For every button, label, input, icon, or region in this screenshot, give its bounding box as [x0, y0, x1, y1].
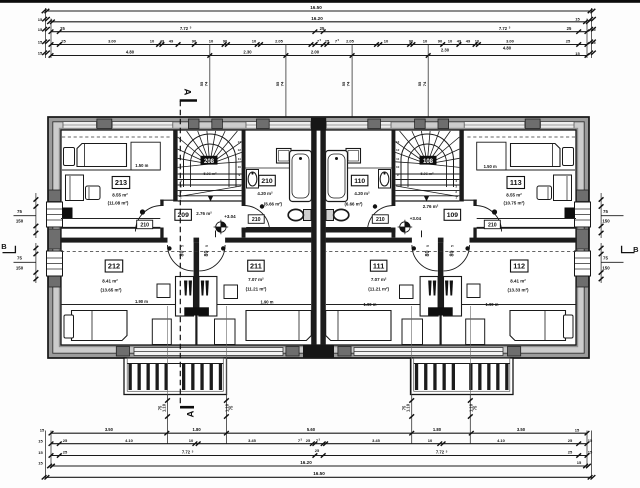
- svg-text:+3.04: +3.04: [224, 214, 236, 219]
- top scan border bar: [0, 0, 640, 3]
- svg-text:74: 74: [346, 81, 351, 86]
- room 111 label: [370, 260, 387, 271]
- svg-text:1.10: 1.10: [406, 403, 411, 412]
- svg-text:1.10: 1.10: [468, 403, 473, 412]
- unit L: radiator top bedroom: [62, 208, 73, 219]
- svg-text:11: 11: [396, 157, 400, 161]
- svg-text:112: 112: [513, 262, 525, 271]
- svg-text:80: 80: [449, 251, 455, 257]
- unit R: level symbol +3.04: [398, 220, 413, 235]
- svg-text:5: 5: [181, 245, 185, 247]
- svg-text:210: 210: [261, 178, 273, 185]
- dim row 16.50 bottom: [46, 476, 592, 478]
- unit L: bathtub: [290, 151, 312, 202]
- svg-text:25: 25: [567, 26, 572, 31]
- svg-text:90: 90: [223, 39, 228, 44]
- unit R: door arc to bathroom: [367, 206, 393, 232]
- svg-text:110: 110: [354, 178, 365, 185]
- unit R: balcony railing balusters: [505, 364, 508, 391]
- svg-text:5.06 m²: 5.06 m²: [420, 172, 434, 176]
- side exterior windows: [47, 202, 591, 276]
- svg-text:74: 74: [280, 81, 285, 86]
- svg-text:10: 10: [423, 39, 428, 44]
- svg-text:49: 49: [169, 39, 174, 44]
- svg-text:3.50: 3.50: [517, 427, 526, 432]
- unit R: door arc to top bedroom: [475, 206, 501, 232]
- unit R: door arc to lower-left room: [444, 245, 470, 271]
- svg-text:2.00: 2.00: [311, 50, 320, 55]
- unit R: dark cabinet block at divider foot: [428, 307, 453, 315]
- svg-text:8.41 m²: 8.41 m²: [510, 278, 526, 283]
- room 109 label: [444, 209, 461, 220]
- unit L: door arc to top bedroom: [136, 206, 162, 232]
- svg-text:7.72: 7.72: [436, 450, 445, 455]
- svg-text:7.07 m²: 7.07 m²: [371, 277, 387, 282]
- unit R: landing-stair junction line: [459, 199, 476, 201]
- right wall window dims 75/150: [599, 193, 624, 283]
- svg-text:25: 25: [306, 438, 311, 443]
- unit R: stair inner horseshoe: [408, 144, 447, 187]
- svg-text:A: A: [186, 411, 197, 418]
- svg-text:90: 90: [438, 39, 443, 44]
- svg-text:(11.08 m²): (11.08 m²): [108, 201, 129, 206]
- unit L: balcony railing balusters: [129, 364, 132, 391]
- exterior wall insulation band: [53, 122, 584, 353]
- room 110 label: [351, 175, 368, 186]
- svg-text:10: 10: [448, 39, 453, 44]
- svg-text:4.20 m²: 4.20 m²: [354, 191, 370, 196]
- dim row 3.50/1.80/5.60 bottom: [51, 432, 587, 434]
- room labels and texts: [100, 159, 529, 307]
- svg-text:5: 5: [205, 245, 209, 247]
- svg-text:49: 49: [160, 39, 165, 44]
- svg-text:80: 80: [425, 251, 431, 257]
- unit R: chair lower-left room: [450, 281, 453, 296]
- svg-text:3.45: 3.45: [372, 438, 381, 443]
- svg-text:5: 5: [450, 245, 454, 247]
- top dimension block: [38, 5, 597, 58]
- svg-text:208: 208: [204, 159, 215, 165]
- unit L: toilet: [304, 210, 312, 221]
- dim row small dims top: [51, 44, 587, 46]
- unit L: desk lower-left room: [176, 277, 194, 317]
- svg-text:109: 109: [447, 212, 459, 219]
- svg-text:3.45: 3.45: [248, 438, 257, 443]
- svg-text:90: 90: [192, 39, 197, 44]
- svg-text:25: 25: [63, 438, 68, 443]
- unit R: side table lower-left: [467, 284, 480, 298]
- svg-text:74: 74: [203, 81, 208, 86]
- unit R: washbasin: [379, 170, 391, 189]
- svg-text:210: 210: [488, 222, 497, 228]
- unit L: stair treads straight flight: [178, 173, 242, 175]
- svg-text:25: 25: [63, 450, 68, 455]
- svg-text:15: 15: [38, 461, 43, 466]
- unit R: balcony slab: [411, 358, 514, 395]
- unit R: dresser lower-left: [466, 319, 485, 345]
- unit R: ceiling height dashed line top room: [465, 136, 575, 138]
- svg-text:13: 13: [396, 140, 400, 144]
- unit L: wardrobe top room: [131, 142, 160, 170]
- svg-text:15: 15: [38, 450, 43, 455]
- unit R: chair lower-right room: [433, 281, 436, 296]
- svg-text:2.76 m²: 2.76 m²: [196, 211, 212, 216]
- unit R: bedroom south wall thin line: [477, 227, 576, 229]
- svg-text:80: 80: [204, 251, 210, 257]
- unit R: desk lower-right room: [420, 277, 438, 317]
- svg-text:25: 25: [320, 26, 325, 31]
- dim end connector lines top: [45, 8, 47, 58]
- svg-text:15: 15: [38, 438, 43, 443]
- svg-text:2.76 m²: 2.76 m²: [423, 204, 439, 209]
- unit L: balcony slab: [124, 358, 227, 395]
- svg-text:8.55 m²: 8.55 m²: [112, 192, 128, 197]
- unit L: level symbol stem tick: [215, 231, 217, 238]
- unit R: washing machine: [346, 149, 361, 164]
- unit L: dresser lower-left: [152, 319, 171, 345]
- unit L: stair outer horseshoe: [184, 134, 237, 187]
- svg-text:7.07 m²: 7.07 m²: [248, 277, 264, 282]
- unit L: corridor south wall: [61, 238, 311, 243]
- unit L: desk lower-right room: [199, 277, 217, 317]
- svg-text:8.55 m²: 8.55 m²: [506, 192, 522, 197]
- svg-text:3.50: 3.50: [105, 427, 114, 432]
- svg-text:10: 10: [189, 438, 194, 443]
- svg-text:75: 75: [603, 256, 608, 261]
- unit R: dresser lower-right: [402, 319, 423, 345]
- room 210 label: [259, 175, 276, 186]
- svg-text:10: 10: [396, 165, 400, 169]
- svg-text:113: 113: [510, 178, 522, 187]
- balcony door dims 75/1.10: [157, 306, 477, 444]
- svg-text:10: 10: [209, 39, 214, 44]
- unit R: bedside table top bedroom: [563, 148, 574, 166]
- svg-text:25: 25: [61, 39, 66, 44]
- unit R: stair outer horseshoe: [401, 134, 454, 187]
- room 212 label: [105, 260, 123, 272]
- unit L: stair walk-line arrow: [208, 196, 213, 202]
- unit R: divider wall lower thin part: [440, 316, 442, 346]
- unit R: bed lower-right room: [326, 311, 391, 341]
- svg-text:(10.75 m²): (10.75 m²): [503, 201, 525, 206]
- svg-text:16.20: 16.20: [300, 460, 312, 465]
- unit R: stair walk-line arrow: [424, 196, 429, 202]
- svg-text:10: 10: [238, 165, 242, 169]
- unit R: stair treads straight flight: [395, 173, 459, 175]
- unit R: 1.50m line top room: [477, 169, 575, 171]
- svg-text:1.10: 1.10: [224, 403, 229, 412]
- svg-text:5: 5: [426, 245, 430, 247]
- unit R: divider wall between lower rooms: [438, 243, 444, 308]
- unit R: chair top bedroom: [537, 186, 552, 200]
- svg-text:150: 150: [602, 265, 610, 270]
- unit L: washing machine: [277, 149, 292, 164]
- svg-text:7.72: 7.72: [180, 26, 189, 31]
- unit L: bathroom south wall: [242, 227, 312, 233]
- dim row 7.72 bottom: [51, 455, 587, 457]
- svg-text:15: 15: [575, 428, 580, 433]
- svg-text:49: 49: [466, 39, 471, 44]
- unit L: landing west wall: [160, 200, 163, 241]
- unit R: bed top bedroom: [511, 144, 561, 167]
- svg-text:90: 90: [409, 39, 414, 44]
- party wall (double acoustic wall): [303, 118, 334, 358]
- svg-text:15: 15: [575, 51, 580, 56]
- svg-text:15: 15: [588, 450, 593, 455]
- svg-text:10: 10: [428, 438, 433, 443]
- room 113 label: [507, 177, 525, 189]
- svg-text:111: 111: [373, 261, 384, 270]
- svg-text:(6.66 m²): (6.66 m²): [344, 202, 363, 207]
- unit L: bedroom south wall thin line: [61, 227, 160, 229]
- unit R: toilet: [326, 210, 334, 221]
- unit L: level symbol +3.04: [214, 220, 229, 235]
- unit L: 1.50m line bathroom: [246, 167, 312, 169]
- svg-text:16.50: 16.50: [310, 5, 322, 10]
- svg-text:213: 213: [115, 178, 127, 187]
- svg-text:8.41 m²: 8.41 m²: [102, 278, 118, 283]
- svg-text:(13.65 m²): (13.65 m²): [100, 288, 122, 293]
- svg-text:11: 11: [238, 157, 242, 161]
- top wall glazing strips: [63, 122, 574, 129]
- door tags left unit: [137, 220, 153, 229]
- unit R: lower height line top room: [477, 218, 576, 220]
- unit L: desk top bedroom: [66, 175, 84, 201]
- unit L: side table lower-left: [157, 284, 170, 298]
- unit L: chair top bedroom: [86, 186, 101, 200]
- svg-text:25: 25: [568, 450, 573, 455]
- svg-text:2.05: 2.05: [275, 39, 284, 44]
- svg-text:12: 12: [396, 148, 400, 152]
- svg-text:15: 15: [588, 438, 593, 443]
- svg-text:2.30: 2.30: [441, 48, 450, 53]
- svg-text:4.10: 4.10: [125, 438, 134, 443]
- section mark A bottom: [180, 406, 194, 409]
- svg-text:1.50 m: 1.50 m: [484, 164, 497, 169]
- svg-text:4.80: 4.80: [126, 50, 135, 55]
- unit R: stair/bath wall: [392, 130, 396, 238]
- section line A-A dashed: [179, 101, 181, 406]
- svg-text:10: 10: [384, 39, 389, 44]
- svg-text:5.06 m²: 5.06 m²: [203, 172, 217, 176]
- unit L: dark cabinet block at divider foot: [184, 307, 209, 315]
- svg-text:3.00: 3.00: [108, 39, 117, 44]
- unit L: bed lower-right room: [246, 311, 311, 341]
- svg-text:210: 210: [140, 222, 149, 228]
- section mark A top: [180, 99, 197, 102]
- svg-text:15: 15: [40, 428, 45, 433]
- svg-text:25: 25: [60, 26, 65, 31]
- unit R: radiator top bedroom: [565, 208, 576, 219]
- unit L: side table lower-right: [224, 285, 238, 299]
- unit R: wardrobe top room: [477, 142, 506, 170]
- svg-text:1.90 m: 1.90 m: [135, 299, 148, 304]
- svg-text:75: 75: [603, 209, 608, 214]
- svg-text:150: 150: [16, 265, 24, 270]
- unit L: divider wall lower thin part: [195, 316, 197, 346]
- svg-text:150: 150: [16, 219, 24, 224]
- unit L: stair break line: [179, 186, 241, 197]
- unit L: chair lower-left room: [184, 281, 187, 296]
- svg-text:15: 15: [577, 460, 582, 465]
- bottom wall window strips: [134, 348, 503, 356]
- svg-text:150: 150: [602, 219, 610, 224]
- svg-text:1.50 m: 1.50 m: [135, 163, 148, 168]
- unit R: stair number box: [420, 156, 437, 165]
- wall pier blocks: [49, 119, 589, 356]
- svg-text:+3.04: +3.04: [410, 216, 422, 221]
- svg-text:74: 74: [422, 81, 427, 86]
- room 213 label: [112, 177, 130, 189]
- dim end connector lines bottom: [45, 431, 47, 479]
- svg-text:4.20 m²: 4.20 m²: [257, 191, 273, 196]
- svg-text:7.72: 7.72: [182, 450, 191, 455]
- unit L: stair inner horseshoe: [191, 144, 230, 187]
- unit R: level symbol stem tick: [421, 231, 423, 238]
- svg-text:10: 10: [252, 39, 257, 44]
- svg-text:212: 212: [108, 262, 120, 271]
- exterior wall outer band: [48, 117, 589, 358]
- svg-text:1.90 m: 1.90 m: [485, 302, 498, 307]
- dim row 16.20 bottom: [51, 465, 587, 467]
- bottom dimension block: [38, 427, 595, 479]
- svg-text:13: 13: [238, 140, 242, 144]
- svg-text:(6.66 m²): (6.66 m²): [264, 202, 283, 207]
- dim row 16.20 top: [51, 21, 587, 23]
- svg-text:25: 25: [325, 39, 330, 44]
- unit R: desk lower-left room: [444, 277, 462, 317]
- svg-text:210: 210: [252, 217, 261, 223]
- unit L: lower height line top room: [61, 218, 160, 220]
- left wall window dims 75/150: [14, 193, 39, 283]
- unit L: ceiling height dashed line top room: [62, 136, 172, 138]
- unit L: washbasin: [247, 170, 259, 189]
- exterior wall inner leaf: [59, 128, 578, 347]
- svg-text:16.20: 16.20: [311, 16, 323, 21]
- svg-text:B: B: [1, 242, 7, 251]
- unit R: dashed height line lower rooms: [326, 251, 576, 253]
- unit R: stair enclosure west wall: [459, 130, 463, 202]
- svg-text:1.80: 1.80: [433, 427, 442, 432]
- svg-text:25: 25: [566, 39, 571, 44]
- dim row 4.80 top: [51, 55, 587, 57]
- unit L: stair enclosure west wall: [173, 130, 177, 202]
- unit R: side table lower-right: [400, 285, 414, 299]
- unit L: chair lower-right room: [201, 281, 204, 296]
- room 112 label: [511, 260, 529, 272]
- svg-text:1.80: 1.80: [193, 427, 202, 432]
- svg-text:25: 25: [568, 438, 573, 443]
- unit L: 1.50m line top room: [62, 169, 160, 171]
- interior floor area: [61, 130, 576, 345]
- unit R: corridor south wall: [326, 238, 576, 243]
- unit L: 1.90m lines lower rooms: [61, 304, 194, 306]
- svg-text:10: 10: [150, 39, 155, 44]
- unit L: stair/bath wall: [242, 130, 246, 238]
- unit L: bed lower-left room: [72, 311, 128, 341]
- svg-text:16.50: 16.50: [313, 471, 325, 476]
- unit L: door arc to lower-left room: [168, 245, 194, 271]
- svg-text:25: 25: [315, 448, 320, 453]
- svg-text:(11.21 m²): (11.21 m²): [246, 286, 267, 291]
- unit L: landing-stair junction line: [160, 199, 177, 201]
- svg-text:2.05: 2.05: [346, 39, 355, 44]
- unit R: bed lower-left room: [510, 311, 566, 341]
- roof window extension lines with 55/74 labels: [199, 45, 428, 201]
- svg-text:12: 12: [238, 148, 242, 152]
- svg-text:210: 210: [376, 217, 385, 223]
- unit L: bedside lower-left: [64, 315, 74, 338]
- svg-text:211: 211: [250, 261, 262, 270]
- svg-text:108: 108: [423, 159, 434, 165]
- svg-text:5.60: 5.60: [307, 427, 316, 432]
- unit R: bedside lower-left: [564, 315, 574, 338]
- svg-text:4.80: 4.80: [503, 46, 512, 51]
- unit R: bathtub: [326, 151, 348, 202]
- unit L: stair number box: [201, 156, 218, 165]
- unit L: bedside table top bedroom: [64, 148, 75, 166]
- svg-text:209: 209: [178, 212, 190, 219]
- dim row 7.72 top: [51, 31, 587, 33]
- svg-text:75: 75: [17, 209, 22, 214]
- room 211 label: [248, 260, 265, 271]
- svg-text:10: 10: [475, 39, 480, 44]
- dim row 16.50 top: [46, 10, 592, 12]
- svg-text:4.10: 4.10: [497, 438, 506, 443]
- unit L: bed top bedroom: [77, 144, 127, 167]
- unit R: stair winder radial treads: [427, 164, 459, 167]
- svg-text:1.10: 1.10: [162, 403, 167, 412]
- unit R: 1.50m line bathroom: [326, 167, 392, 169]
- unit L: dresser lower-right: [215, 319, 236, 345]
- unit R: stair break line: [396, 186, 458, 197]
- svg-text:(11.21 m²): (11.21 m²): [368, 286, 389, 291]
- svg-text:1.90 m: 1.90 m: [260, 299, 273, 304]
- svg-text:75: 75: [17, 256, 22, 261]
- svg-text:7.72: 7.72: [499, 26, 508, 31]
- room 209 label: [175, 209, 192, 220]
- door tags right unit: [484, 220, 500, 229]
- svg-text:1.90 m: 1.90 m: [363, 302, 376, 307]
- unit R: 1.90m lines lower rooms: [444, 304, 577, 306]
- svg-text:15: 15: [575, 17, 580, 22]
- unit R: landing west wall: [473, 200, 476, 241]
- svg-text:49: 49: [457, 39, 462, 44]
- svg-text:2.30: 2.30: [243, 50, 252, 55]
- svg-text:3.00: 3.00: [506, 39, 515, 44]
- unit L: door arc to lower-right room: [199, 245, 225, 271]
- unit L: dashed height line lower rooms: [61, 251, 311, 253]
- unit R: desk top bedroom: [554, 175, 572, 201]
- svg-text:(13.33 m²): (13.33 m²): [507, 288, 529, 293]
- unit R: bathroom south wall: [326, 227, 396, 233]
- unit R: door arc to lower-right room: [412, 245, 438, 271]
- unit L: door arc to bathroom: [244, 206, 270, 232]
- unit L: divider wall between lower rooms: [194, 243, 200, 308]
- unit L: stair winder radial treads: [178, 164, 210, 167]
- dim row 4.10/3.45 bottom: [51, 443, 587, 445]
- svg-text:A: A: [182, 89, 193, 96]
